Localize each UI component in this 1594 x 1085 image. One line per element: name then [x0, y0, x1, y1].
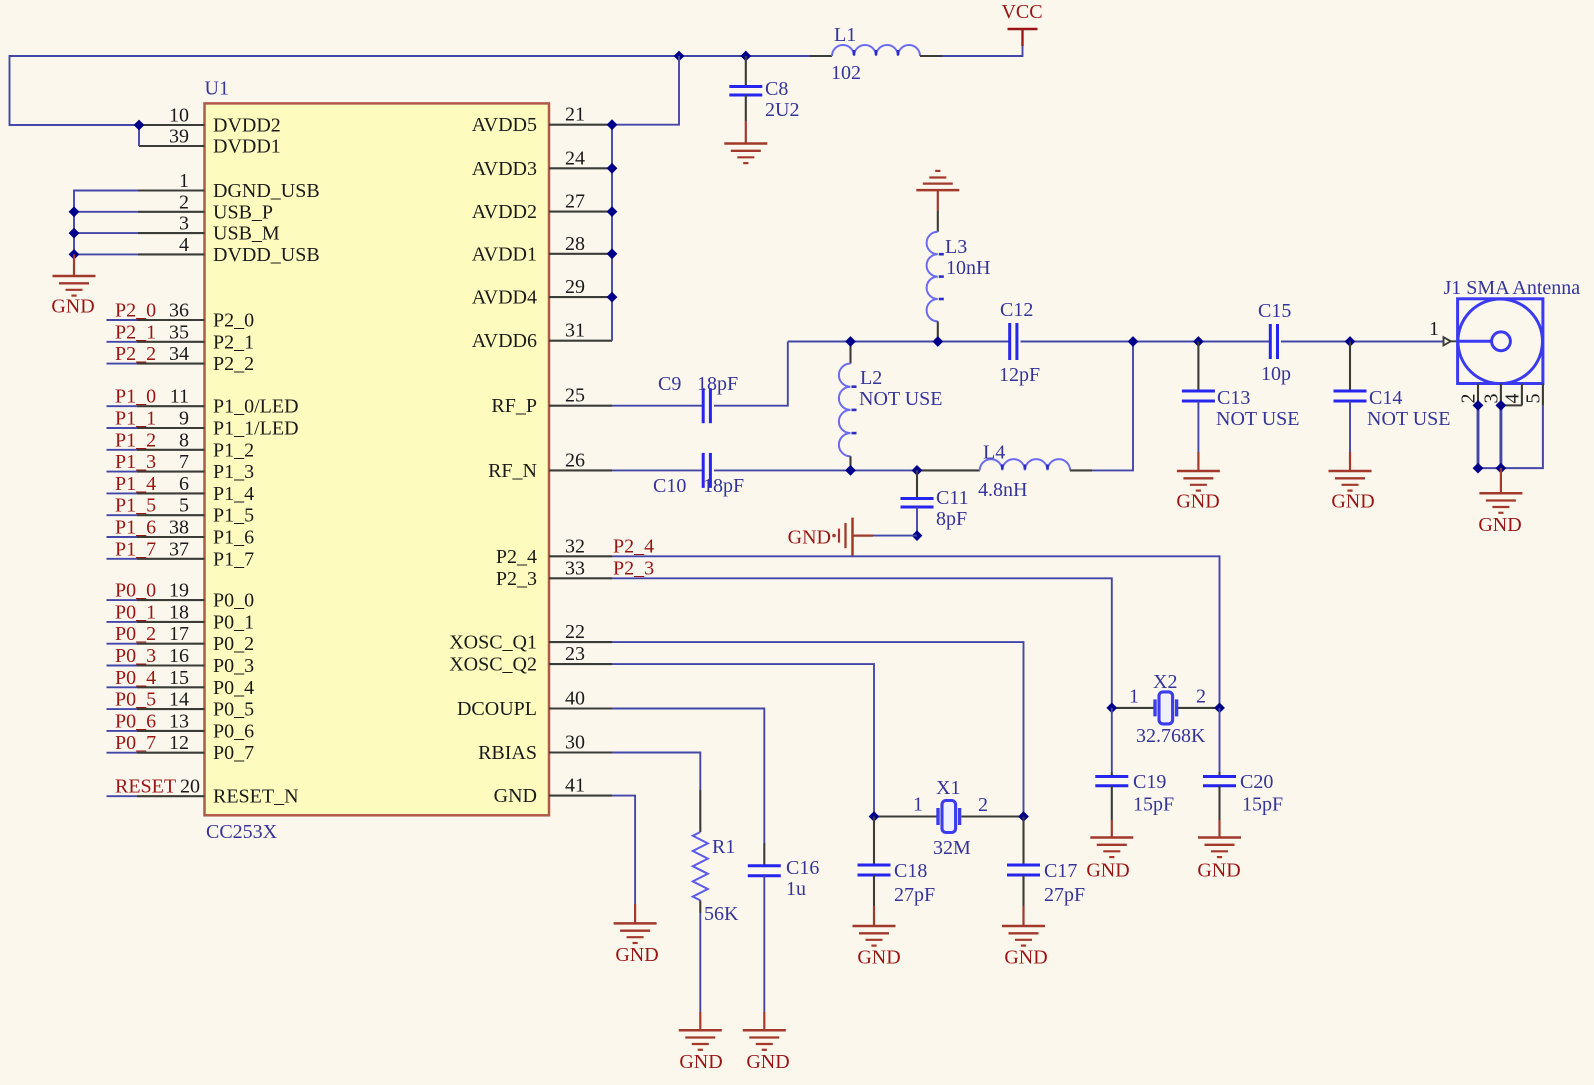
svg-text:27pF: 27pF [1044, 884, 1085, 906]
svg-text:P1_0: P1_0 [115, 386, 156, 408]
lead L2 bottom [849, 456, 851, 470]
lead C18 top [873, 817, 875, 866]
svg-text:3: 3 [179, 213, 189, 235]
wire AVDD bus vertical [611, 125, 613, 341]
svg-text:12pF: 12pF [999, 364, 1040, 386]
power symbol VCC [1008, 29, 1038, 46]
pin 26 RF_N [549, 469, 612, 471]
ground inverted above L3 [916, 171, 959, 190]
svg-text:2: 2 [1196, 686, 1206, 708]
wire C12 to C15 [1021, 341, 1271, 343]
svg-text:P0_7: P0_7 [115, 732, 156, 754]
pin 20 RESET_N [107, 795, 205, 797]
lead L3 bottom [937, 321, 939, 341]
junction L2 bottom [845, 465, 856, 476]
svg-text:102: 102 [831, 62, 861, 84]
wire C14 bottom [1349, 401, 1351, 452]
svg-text:P0_5: P0_5 [115, 689, 156, 711]
svg-text:1: 1 [1129, 686, 1139, 708]
svg-text:12: 12 [169, 732, 189, 754]
svg-text:GND: GND [857, 947, 900, 969]
svg-text:RESET: RESET [115, 776, 176, 798]
pin 29 AVDD4 [549, 296, 612, 298]
red stub below inverted ground [937, 190, 939, 211]
red stub to C8 ground [745, 121, 747, 144]
pin 15 P0_4 [107, 686, 205, 688]
junction C13 branch [1193, 336, 1204, 347]
wire C8 upper lead [745, 56, 747, 87]
crystal X2 [1155, 692, 1177, 724]
svg-text:USB_P: USB_P [213, 201, 273, 223]
wire C13 bottom [1197, 401, 1199, 452]
junction J1 pin3 top [1496, 400, 1507, 411]
svg-text:P1_5: P1_5 [213, 505, 254, 527]
svg-text:27pF: 27pF [894, 884, 935, 906]
wire C10 to L2 bottom [714, 469, 851, 471]
svg-text:P0_6: P0_6 [213, 720, 254, 742]
wire DVDD_USB [74, 253, 138, 255]
lead C13 top [1197, 342, 1199, 392]
crystal X1 [938, 801, 960, 833]
svg-text:1: 1 [1429, 318, 1439, 340]
junction AVDD bus [607, 248, 618, 259]
svg-text:13: 13 [169, 710, 189, 732]
pin 16 P0_3 [107, 665, 205, 667]
svg-text:P1_4: P1_4 [213, 483, 254, 505]
red stub to C16 ground [763, 1012, 765, 1030]
lead X1 pin2 [962, 815, 1024, 817]
svg-text:38: 38 [169, 517, 189, 539]
svg-text:P0_3: P0_3 [213, 655, 254, 677]
svg-text:15pF: 15pF [1133, 794, 1174, 816]
svg-text:P0_6: P0_6 [115, 710, 156, 732]
inductor L3 [927, 232, 944, 322]
wire C15 to antenna [1281, 341, 1443, 343]
svg-text:27: 27 [565, 191, 585, 213]
svg-text:NOT USE: NOT USE [1216, 408, 1300, 430]
svg-text:X2: X2 [1153, 671, 1177, 693]
capacitor C20 [1203, 777, 1236, 786]
svg-text:17: 17 [169, 623, 189, 645]
pin 23 XOSC_Q2 [549, 663, 612, 665]
svg-text:37: 37 [169, 538, 189, 560]
svg-text:10nH: 10nH [946, 257, 990, 279]
svg-text:10p: 10p [1261, 363, 1291, 385]
wire X2 pin2 to C20 [1219, 708, 1221, 772]
junction AVDD bus [607, 206, 618, 217]
pin 18 P0_1 [107, 621, 205, 623]
svg-text:GND: GND [679, 1051, 722, 1073]
lead X2 pin1 [1112, 707, 1156, 709]
svg-text:GND: GND [1197, 860, 1240, 882]
svg-text:DVDD_USB: DVDD_USB [213, 244, 320, 266]
wire XOSC_Q2 to X1 pin1 [612, 664, 874, 816]
pin 24 AVDD3 [549, 167, 612, 169]
capacitor C15 [1270, 324, 1277, 359]
capacitor C9 [703, 388, 710, 423]
svg-text:X1: X1 [936, 777, 960, 799]
svg-text:C14: C14 [1369, 387, 1402, 409]
svg-text:34: 34 [169, 343, 189, 365]
junction C11 bottom [912, 530, 923, 541]
pin 32 P2_4 [549, 555, 612, 557]
svg-text:7: 7 [179, 451, 189, 473]
red stub C14 ground [1349, 452, 1351, 471]
svg-text:RESET_N: RESET_N [213, 786, 299, 808]
pin 7 P1_3 [107, 471, 205, 473]
red stub C17 ground [1022, 906, 1024, 926]
svg-text:39: 39 [169, 126, 189, 148]
inductor L2 [839, 364, 857, 457]
ground C14 [1329, 471, 1372, 491]
svg-text:P0_4: P0_4 [115, 667, 156, 689]
svg-text:DCOUPL: DCOUPL [457, 698, 537, 720]
capacitor C8 [729, 87, 762, 96]
svg-text:P0_2: P0_2 [213, 633, 254, 655]
svg-text:P1_5: P1_5 [115, 495, 156, 517]
pin 3 stub of J1 [1500, 384, 1502, 406]
wire pin2 vertical to ground bus [1477, 405, 1480, 468]
svg-text:P0_3: P0_3 [115, 645, 156, 667]
ground R1 [679, 1030, 722, 1050]
svg-text:P2_4: P2_4 [613, 536, 654, 558]
wire pin3 vertical to ground bus [1499, 405, 1502, 468]
svg-text:P2_3: P2_3 [496, 568, 537, 590]
svg-text:35: 35 [169, 321, 189, 343]
wire RF_N to C10 [612, 469, 703, 471]
svg-text:J1 SMA Antenna: J1 SMA Antenna [1444, 277, 1581, 299]
pin 2 stub of J1 [1477, 384, 1479, 406]
svg-text:GND: GND [615, 944, 658, 966]
junction USB_M [69, 228, 80, 239]
wire C19 bottom [1111, 786, 1113, 820]
wire L4 to main RF line riser [1092, 342, 1133, 471]
svg-text:P2_2: P2_2 [213, 353, 254, 375]
svg-text:L1: L1 [834, 24, 856, 46]
wire C9 to main RF node [714, 342, 788, 406]
svg-text:L3: L3 [945, 236, 967, 258]
svg-text:22: 22 [565, 621, 585, 643]
svg-text:P1_7: P1_7 [213, 548, 254, 570]
svg-text:P0_1: P0_1 [213, 611, 254, 633]
svg-text:5: 5 [179, 495, 189, 517]
red stub C19 ground [1111, 820, 1113, 838]
red stub to USB ground [73, 254, 75, 276]
svg-text:10: 10 [169, 105, 189, 127]
svg-text:P2_0: P2_0 [115, 300, 156, 322]
svg-text:P1_6: P1_6 [213, 527, 254, 549]
svg-text:2U2: 2U2 [765, 99, 799, 121]
wire L1 to VCC [942, 46, 1023, 56]
svg-text:9: 9 [179, 408, 189, 430]
svg-text:AVDD6: AVDD6 [472, 330, 537, 352]
svg-text:P2_4: P2_4 [496, 546, 537, 568]
pin 1 DGND_USB [138, 189, 205, 191]
svg-text:C18: C18 [894, 860, 927, 882]
svg-text:8pF: 8pF [936, 508, 967, 530]
lead X2 pin2 [1178, 707, 1220, 709]
svg-text:15pF: 15pF [1242, 794, 1283, 816]
red stub C20 ground [1218, 820, 1220, 838]
svg-text:11: 11 [170, 386, 189, 408]
svg-text:40: 40 [565, 688, 585, 710]
junction C14 branch [1345, 336, 1356, 347]
wire C11 bottom [916, 507, 918, 536]
junction C11 top [912, 465, 923, 476]
svg-text:14: 14 [169, 689, 189, 711]
pin 41 GND [549, 795, 612, 797]
pin 4 stub of J1 [1521, 384, 1523, 406]
pin 38 P1_6 [107, 536, 205, 538]
wire P2_4 to X2 pin2 [612, 556, 1220, 708]
connector J1 center pin circle [1492, 332, 1511, 351]
svg-text:L2: L2 [860, 367, 882, 389]
svg-text:P1_7: P1_7 [115, 538, 156, 560]
ground C17 [1002, 926, 1045, 946]
svg-text:32: 32 [565, 535, 585, 557]
junction USB_P [69, 206, 80, 217]
svg-text:P2_0: P2_0 [213, 310, 254, 332]
capacitor C11 [901, 499, 934, 508]
pin 17 P0_2 [107, 643, 205, 645]
pin 3 USB_M [138, 232, 205, 234]
junction J1 pin2 top [1473, 400, 1484, 411]
pin 5 stub of J1 [1542, 384, 1544, 406]
lead C17 top [1022, 817, 1024, 866]
svg-text:L4: L4 [983, 442, 1005, 464]
pin 8 P1_2 [107, 449, 205, 451]
inductor L4 [980, 459, 1070, 470]
svg-text:AVDD2: AVDD2 [472, 201, 537, 223]
wire L2 bottom to C11 node [851, 469, 918, 471]
capacitor C12 [1010, 323, 1017, 360]
connector J1 outer circle [1458, 299, 1543, 384]
pin 14 P0_5 [107, 708, 205, 710]
junction L4 riser [1128, 336, 1139, 347]
wire AVDD riser from top rail [612, 56, 679, 125]
svg-text:18pF: 18pF [697, 373, 738, 395]
junction X1 pin1 [869, 811, 880, 822]
svg-text:C8: C8 [765, 78, 788, 100]
svg-text:21: 21 [565, 104, 585, 126]
svg-text:AVDD1: AVDD1 [472, 243, 537, 265]
red stub pin41 ground [634, 904, 636, 923]
svg-text:28: 28 [565, 233, 585, 255]
wire RBIAS to R1 [612, 753, 700, 791]
resistor R1 [693, 832, 708, 900]
svg-text:AVDD5: AVDD5 [472, 114, 537, 136]
svg-text:18pF: 18pF [703, 475, 744, 497]
svg-text:19: 19 [169, 580, 189, 602]
junction X2 pin1 [1106, 703, 1117, 714]
svg-text:P1_0/LED: P1_0/LED [213, 396, 299, 418]
wire DVDD2 to DVDD1 stub [138, 125, 140, 146]
svg-text:15: 15 [169, 667, 189, 689]
pin 22 XOSC_Q1 [549, 641, 612, 643]
svg-text:23: 23 [565, 643, 585, 665]
junction AVDD bus [607, 163, 618, 174]
pin 25 RF_P [549, 405, 612, 407]
svg-text:20: 20 [180, 776, 200, 798]
svg-text:USB_M: USB_M [213, 223, 280, 245]
svg-text:GND: GND [51, 296, 94, 318]
capacitor C16 [748, 866, 781, 876]
svg-text:C19: C19 [1133, 771, 1166, 793]
svg-text:GND: GND [746, 1051, 789, 1073]
svg-text:8: 8 [179, 429, 189, 451]
pin 28 AVDD1 [549, 253, 612, 255]
svg-text:GND: GND [788, 527, 831, 549]
svg-text:32M: 32M [933, 837, 971, 859]
capacitor C14 [1334, 391, 1367, 401]
svg-text:5: 5 [1523, 394, 1545, 404]
svg-text:NOT USE: NOT USE [859, 388, 943, 410]
junction AVDD bus [607, 292, 618, 303]
svg-text:C15: C15 [1258, 300, 1291, 322]
junction at DVDD2 [134, 120, 145, 131]
wire pin5 down and across [1501, 405, 1543, 468]
svg-text:P2_2: P2_2 [115, 343, 156, 365]
wire DGND_USB/USB_P/USB_M/DVDD_USB tie [74, 191, 138, 255]
svg-text:C9: C9 [658, 373, 681, 395]
ground J1 [1479, 493, 1522, 513]
svg-text:33: 33 [565, 557, 585, 579]
svg-text:25: 25 [565, 385, 585, 407]
junction X2 pin2 [1214, 703, 1225, 714]
red stub C13 ground [1197, 452, 1199, 471]
wire C17 bottom [1022, 875, 1024, 906]
capacitor C18 [858, 865, 891, 875]
svg-text:56K: 56K [704, 903, 739, 925]
lead X1 pin1 [874, 815, 937, 817]
svg-text:XOSC_Q1: XOSC_Q1 [449, 632, 537, 654]
svg-text:GND: GND [494, 785, 537, 807]
red stub J1 ground [1500, 468, 1502, 493]
svg-text:2: 2 [978, 794, 988, 816]
wire VCC rail top loop to DVDD2 [10, 56, 680, 125]
svg-text:VCC: VCC [1001, 1, 1042, 23]
svg-text:P0_7: P0_7 [213, 742, 254, 764]
lead L3 top [937, 211, 939, 232]
svg-text:GND: GND [1086, 860, 1129, 882]
svg-text:NOT USE: NOT USE [1367, 408, 1451, 430]
svg-text:1: 1 [913, 794, 923, 816]
pin 40 DCOUPL [549, 707, 612, 709]
svg-text:6: 6 [179, 473, 189, 495]
wire R1 to ground [699, 913, 701, 1012]
junction J1 pin3 bottom [1496, 463, 1507, 474]
svg-text:P0_5: P0_5 [213, 699, 254, 721]
wire DCOUPL to C16 [612, 709, 764, 844]
svg-text:P1_3: P1_3 [213, 461, 254, 483]
capacitor C10 [703, 453, 710, 488]
pin 36 P2_0 [107, 319, 205, 321]
svg-text:C13: C13 [1217, 387, 1250, 409]
svg-text:GND: GND [1004, 947, 1047, 969]
svg-text:P1_4: P1_4 [115, 473, 156, 495]
pin 10 DVDD2 [139, 124, 205, 126]
wire C16 bottom [763, 876, 765, 1012]
pin 39 DVDD1 [139, 145, 205, 147]
junction top rail at C8 [740, 51, 751, 62]
wire C8 lower lead [745, 95, 747, 121]
pin 34 P2_2 [107, 363, 205, 365]
svg-text:P0_0: P0_0 [213, 590, 254, 612]
junction X1 pin2 [1018, 811, 1029, 822]
svg-text:CC253X: CC253X [206, 821, 278, 843]
pin 9 P1_1/LED [107, 427, 205, 429]
svg-text:C17: C17 [1044, 860, 1077, 882]
ground C8 [724, 144, 767, 164]
svg-text:29: 29 [565, 276, 585, 298]
lead C11 top [916, 470, 918, 499]
pin 35 P2_1 [107, 341, 205, 343]
svg-text:C16: C16 [786, 857, 819, 879]
lead L4 right [1070, 469, 1092, 471]
svg-text:P1_3: P1_3 [115, 451, 156, 473]
svg-text:XOSC_Q2: XOSC_Q2 [449, 654, 537, 676]
junction J1 pin2 bottom [1473, 463, 1484, 474]
junction L3 bottom [932, 336, 943, 347]
svg-text:P2_1: P2_1 [213, 331, 254, 353]
capacitor C13 [1182, 391, 1215, 401]
svg-text:P0_1: P0_1 [115, 601, 156, 623]
pin 21 AVDD5 [549, 124, 612, 126]
ground USB [53, 276, 96, 296]
ground C19 [1090, 838, 1133, 858]
svg-text:P0_2: P0_2 [115, 623, 156, 645]
svg-text:P1_1/LED: P1_1/LED [213, 418, 299, 440]
wire XOSC_Q1 to X1 pin2 [612, 642, 1024, 816]
svg-text:P1_2: P1_2 [115, 429, 156, 451]
lead C19 top [1111, 772, 1113, 777]
junction L2 top [845, 336, 856, 347]
ground C18 [853, 926, 896, 946]
svg-text:16: 16 [169, 645, 189, 667]
connector J1 center pin line [1458, 340, 1492, 343]
svg-text:4: 4 [1502, 394, 1524, 404]
lead R1 bottom [699, 900, 701, 913]
pin 31 AVDD6 [549, 340, 612, 342]
pin 5 P1_5 [107, 514, 205, 516]
svg-text:31: 31 [565, 320, 585, 342]
svg-text:18: 18 [169, 601, 189, 623]
pin 1 arrow into J1 [1444, 337, 1458, 345]
svg-text:RBIAS: RBIAS [478, 742, 537, 764]
junction top rail at AVDD riser [674, 51, 685, 62]
wire USB_P [74, 211, 138, 213]
pin 2 USB_P [138, 211, 205, 213]
svg-text:C20: C20 [1240, 771, 1273, 793]
svg-text:41: 41 [565, 775, 585, 797]
junction DVDD_USB [69, 249, 80, 260]
svg-text:GND: GND [1331, 491, 1374, 513]
pin 6 P1_4 [107, 492, 205, 494]
IC U1 CC253X body [205, 103, 550, 815]
svg-text:2: 2 [179, 191, 189, 213]
lead L1 right [920, 55, 942, 57]
svg-text:24: 24 [565, 147, 585, 169]
svg-text:GND: GND [1478, 514, 1521, 536]
ground C20 [1198, 838, 1241, 858]
ground C16 [743, 1030, 786, 1050]
svg-text:P0_4: P0_4 [213, 677, 254, 699]
pin 13 P0_6 [107, 730, 205, 732]
svg-text:DGND_USB: DGND_USB [213, 180, 320, 202]
wire P2_3 to X2 pin1 [612, 578, 1112, 708]
pin 37 P1_7 [107, 558, 205, 560]
lead C20 top [1218, 772, 1220, 777]
